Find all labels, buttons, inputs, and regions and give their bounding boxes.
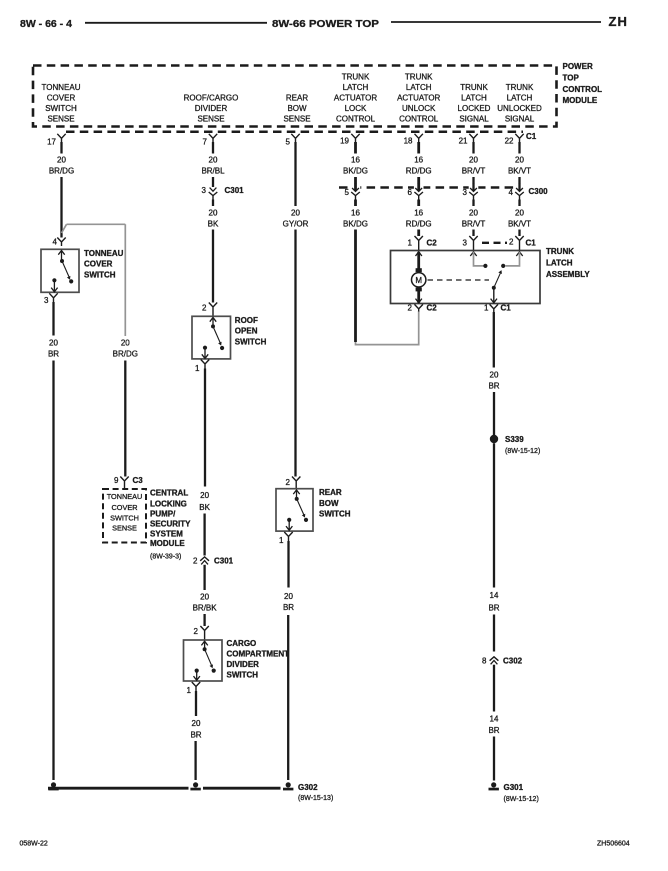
label 20 BR — [48, 339, 59, 359]
svg-text:20: 20 — [209, 156, 218, 165]
svg-text:BR/DG: BR/DG — [49, 167, 74, 176]
central locking pump security system module label — [150, 489, 191, 561]
svg-text:8W - 66 - 4: 8W - 66 - 4 — [20, 18, 72, 30]
svg-text:UNLOCKED: UNLOCKED — [497, 104, 542, 113]
svg-text:LOCKING: LOCKING — [150, 499, 187, 508]
wire 20 BR to splice — [493, 392, 495, 435]
svg-text:BR/VT: BR/VT — [462, 220, 486, 229]
tonneau cover switch box — [41, 249, 79, 292]
module pin label REAR BOW SENSE — [283, 94, 310, 124]
wire 20 BR to ground — [194, 741, 196, 780]
svg-text:TRUNK: TRUNK — [342, 73, 370, 82]
wire 20 BK to roof open switch — [212, 230, 214, 303]
rear bow switch box — [276, 489, 313, 531]
svg-text:SWITCH: SWITCH — [319, 509, 351, 518]
pin 3 — [44, 293, 58, 305]
svg-text:SIGNAL: SIGNAL — [459, 115, 489, 124]
svg-text:SWITCH: SWITCH — [235, 337, 267, 346]
svg-text:16: 16 — [414, 156, 423, 165]
svg-text:RD/DG: RD/DG — [406, 167, 432, 176]
pin 9 C3 — [114, 476, 143, 489]
svg-text:8: 8 — [482, 657, 487, 666]
trunk latch mechanical dashed link — [428, 279, 490, 281]
pin 2 C2 below trunk latch — [408, 304, 438, 313]
roof switch fixed contact — [203, 346, 207, 350]
trunk latch locked contact — [483, 264, 487, 268]
wire to C302 — [493, 615, 495, 652]
tonneau switch internal arrow up — [58, 251, 64, 262]
wire 20 BK/VT segment — [518, 142, 520, 154]
wire 16 BK/DG long run — [354, 230, 357, 343]
wire 20 BR/DG to central locking pump — [124, 361, 126, 477]
trunk latch switch lever — [494, 272, 501, 288]
tonneau switch pivot — [60, 259, 64, 263]
svg-text:4: 4 — [53, 238, 58, 247]
svg-text:COVER: COVER — [47, 94, 76, 103]
svg-text:TRUNK: TRUNK — [405, 73, 433, 82]
svg-text:20: 20 — [209, 209, 218, 218]
power top control module label — [563, 62, 603, 105]
trunk latch locked signal internal arrow up — [470, 252, 476, 256]
pin 1 C2 trunk latch — [408, 236, 438, 251]
pin 2 C1 trunk latch — [509, 236, 536, 251]
wire 14 BR lower — [493, 665, 495, 712]
wire 20 BR segment — [287, 541, 289, 588]
svg-text:(8W-39-3): (8W-39-3) — [150, 553, 181, 560]
wire 16 RD/DG to trunk latch — [417, 230, 420, 237]
svg-text:DIVIDER: DIVIDER — [195, 104, 228, 113]
wire 20 BR/VT second segment — [472, 200, 474, 207]
svg-text:DIVIDER: DIVIDER — [227, 660, 260, 669]
pin 17 — [47, 134, 66, 147]
svg-text:TONNEAU: TONNEAU — [107, 492, 143, 501]
cargo switch lever — [205, 649, 212, 666]
svg-text:G301: G301 — [504, 783, 524, 792]
svg-text:BR/VT: BR/VT — [462, 167, 486, 176]
wire 14 BR upper — [493, 443, 495, 587]
svg-text:20: 20 — [469, 209, 478, 218]
wire 16 RD/DG segment — [417, 142, 420, 154]
svg-text:SWITCH: SWITCH — [45, 104, 77, 113]
pin 3 C1 trunk latch — [463, 236, 478, 251]
trunk latch motor feed wire top — [417, 252, 420, 269]
wire 20 BK/VT to trunk latch — [518, 230, 520, 237]
svg-text:22: 22 — [505, 137, 514, 146]
svg-text:C300: C300 — [529, 187, 549, 196]
wire 20 GY/OR segment — [294, 142, 296, 206]
svg-text:BR/BK: BR/BK — [193, 604, 218, 613]
wire 20 BR/VT segment — [472, 142, 474, 154]
svg-text:BOW: BOW — [319, 499, 339, 508]
pin 19 — [340, 134, 360, 146]
svg-text:20: 20 — [49, 339, 58, 348]
cargo switch pivot — [203, 647, 207, 651]
module pin label TRUNK LATCH LOCKED SIGNAL — [458, 83, 491, 124]
pin 1 cargo switch — [187, 682, 201, 695]
svg-text:20: 20 — [57, 156, 66, 165]
label 16 RD/DG lower — [406, 209, 432, 229]
rear bow switch label — [319, 488, 351, 518]
connector 2 C301 — [193, 557, 234, 566]
svg-text:SWITCH: SWITCH — [110, 514, 139, 523]
roof switch lever — [213, 326, 220, 343]
wire 20 BR to ground — [52, 361, 54, 781]
svg-text:POWER: POWER — [563, 62, 593, 71]
pin 1 C1 below trunk latch — [484, 304, 511, 313]
cargo switch internal arrow up — [201, 641, 207, 649]
svg-text:BK: BK — [199, 503, 210, 512]
trunk latch assembly label — [546, 247, 590, 279]
svg-text:(8W-15-12): (8W-15-12) — [505, 448, 540, 455]
cargo compartment divider switch label — [227, 639, 290, 679]
svg-text:1: 1 — [408, 239, 413, 248]
label 20 BK/VT — [508, 156, 531, 176]
tonneau cover switch label — [84, 249, 124, 279]
svg-text:(8W-15-13): (8W-15-13) — [298, 795, 333, 802]
trunk latch unlocked contact — [501, 264, 505, 268]
svg-text:ROOF: ROOF — [235, 316, 258, 325]
pin 22 — [505, 134, 524, 146]
svg-text:SENSE: SENSE — [47, 115, 74, 124]
svg-text:5: 5 — [286, 138, 291, 147]
svg-text:ACTUATOR: ACTUATOR — [397, 94, 440, 103]
svg-text:058W-22: 058W-22 — [20, 841, 48, 848]
svg-text:LATCH: LATCH — [507, 94, 533, 103]
svg-text:BK/DG: BK/DG — [343, 167, 368, 176]
svg-text:SENSE: SENSE — [112, 523, 137, 532]
cargo compartment divider switch box — [184, 640, 223, 681]
wire to C301 pin 2 — [203, 514, 205, 556]
pin 4 — [53, 238, 66, 247]
svg-text:1: 1 — [195, 364, 200, 373]
svg-text:2: 2 — [509, 238, 514, 247]
label 16 BK/DG lower — [343, 209, 368, 229]
connector 3 C301 — [202, 186, 245, 200]
svg-text:2: 2 — [193, 557, 198, 566]
C300 pin 6 — [408, 183, 424, 199]
pin 5 — [286, 134, 300, 147]
ground symbol at tonneau switch wire — [48, 782, 58, 790]
pin 7 — [203, 134, 218, 147]
roof switch moving contact — [220, 346, 224, 350]
rear bow switch pivot — [295, 497, 299, 501]
wire 20 BK lower — [204, 369, 206, 487]
svg-text:3: 3 — [44, 296, 49, 305]
roof switch internal arrow up — [210, 318, 216, 327]
svg-text:BK/VT: BK/VT — [508, 220, 531, 229]
label 14 BR lower — [488, 715, 499, 736]
svg-text:20: 20 — [469, 156, 478, 165]
svg-text:CENTRAL: CENTRAL — [150, 489, 188, 498]
svg-text:2: 2 — [194, 627, 199, 636]
svg-text:1: 1 — [187, 686, 192, 695]
svg-text:14: 14 — [490, 591, 499, 600]
svg-text:BR: BR — [283, 603, 294, 612]
splice S339 — [490, 435, 498, 443]
svg-text:LOCK: LOCK — [345, 104, 367, 113]
svg-text:BR/BL: BR/BL — [201, 167, 225, 176]
svg-text:C3: C3 — [133, 476, 144, 485]
svg-text:BR/DG: BR/DG — [113, 350, 138, 359]
connector C1 dashed line at module bottom — [66, 131, 523, 134]
svg-text:PUMP/: PUMP/ — [150, 510, 176, 519]
svg-text:UNLOCK: UNLOCK — [402, 104, 436, 113]
svg-text:COVER: COVER — [112, 503, 138, 512]
svg-text:TONNEAU: TONNEAU — [84, 249, 124, 258]
svg-text:ZH506604: ZH506604 — [597, 841, 630, 848]
svg-text:ASSEMBLY: ASSEMBLY — [546, 270, 590, 279]
label 20 BK/VT lower — [508, 209, 531, 229]
svg-text:COMPARTMENT: COMPARTMENT — [227, 650, 290, 659]
svg-text:20: 20 — [284, 592, 293, 601]
svg-text:LATCH: LATCH — [406, 83, 432, 92]
label 14 BR — [488, 591, 499, 613]
svg-text:21: 21 — [459, 137, 468, 146]
wire to tonneau cover switch — [60, 177, 62, 238]
pin 2 cargo switch — [194, 626, 209, 640]
svg-text:20: 20 — [200, 491, 209, 500]
svg-text:20: 20 — [192, 719, 201, 728]
svg-text:OPEN: OPEN — [235, 327, 258, 336]
svg-text:CONTROL: CONTROL — [563, 85, 603, 94]
svg-text:REAR: REAR — [319, 488, 342, 497]
wire above C300 pin 6 — [417, 177, 420, 187]
wire to rear bow switch — [294, 230, 296, 477]
svg-text:C2: C2 — [427, 239, 438, 248]
svg-text:BR: BR — [48, 350, 59, 359]
C300 pin 5 — [345, 183, 361, 199]
svg-text:ROOF/CARGO: ROOF/CARGO — [184, 94, 239, 103]
trunk latch motor feed arrow up — [416, 252, 422, 256]
svg-text:S339: S339 — [505, 435, 524, 444]
ground G301 — [489, 782, 539, 802]
pin 2 roof open switch — [202, 303, 217, 317]
central locking pump/security system module dashed box — [103, 489, 146, 543]
label 20 BR — [488, 371, 499, 391]
svg-text:3: 3 — [463, 188, 468, 197]
svg-text:SENSE: SENSE — [197, 115, 224, 124]
svg-text:BR: BR — [488, 604, 499, 613]
wire gray elbow to trunk latch pin 2 C2 — [356, 311, 419, 345]
module pin label TRUNK LATCH ACTUATOR UNLOCK CONTROL — [397, 73, 440, 124]
wire 16 BK/DG segment — [354, 142, 357, 154]
wire branch horizontal 20 BR/DG — [67, 223, 126, 225]
svg-text:16: 16 — [351, 156, 360, 165]
wire 16 BK/DG second segment — [354, 200, 357, 207]
svg-text:TRUNK: TRUNK — [546, 247, 574, 256]
label 20 BR/DG — [49, 156, 74, 176]
svg-text:TRUNK: TRUNK — [460, 83, 488, 92]
cargo switch fixed contact — [195, 669, 199, 673]
svg-text:MODULE: MODULE — [563, 96, 598, 105]
cargo switch moving contact — [212, 669, 216, 673]
label 16 BK/DG — [343, 156, 368, 176]
svg-text:C1: C1 — [526, 132, 537, 141]
svg-text:M: M — [415, 276, 422, 285]
trunk latch unlocked signal internal wire — [506, 252, 520, 266]
trunk latch switch pivot — [492, 286, 496, 290]
svg-text:14: 14 — [490, 715, 499, 724]
trunk latch assembly box — [391, 251, 541, 304]
wire 16 RD/DG second segment — [417, 200, 420, 207]
svg-text:C1: C1 — [501, 304, 512, 313]
pin 18 — [404, 134, 423, 146]
wire 20 BR upper segment — [195, 691, 197, 716]
svg-text:(8W-15-12): (8W-15-12) — [504, 796, 539, 803]
wire 20 BR/DG upper segment — [60, 142, 62, 154]
ground bus G302 — [48, 787, 189, 790]
svg-text:SWITCH: SWITCH — [84, 270, 116, 279]
connector 8 C302 — [482, 657, 523, 666]
svg-text:C302: C302 — [503, 657, 523, 666]
wire branch vertical gray 20 BR/DG — [124, 224, 126, 336]
wire above C300 pin 4 — [518, 177, 520, 187]
svg-text:BOW: BOW — [287, 104, 307, 113]
roof open switch label — [235, 316, 267, 346]
svg-text:7: 7 — [203, 138, 208, 147]
module pin label TONNEAU COVER SWITCH SENSE — [42, 83, 81, 124]
trunk latch motor arrow down — [416, 299, 422, 303]
tonneau switch lever — [62, 261, 69, 278]
svg-text:16: 16 — [414, 209, 423, 218]
trunk latch switch common wire — [493, 288, 495, 303]
label 20 BR/VT — [462, 156, 486, 176]
C300 pin 4 — [509, 183, 525, 199]
svg-text:C301: C301 — [214, 557, 234, 566]
svg-text:20: 20 — [121, 339, 130, 348]
svg-text:BK/DG: BK/DG — [343, 220, 368, 229]
wire 20 BK upper segment — [212, 200, 214, 207]
svg-text:G302: G302 — [298, 783, 318, 792]
svg-text:C1: C1 — [526, 239, 537, 248]
connector C300 dashed line — [339, 186, 524, 189]
svg-text:RD/DG: RD/DG — [406, 220, 432, 229]
label 20 BR/BL — [201, 156, 225, 176]
tonneau switch fixed contact — [52, 278, 56, 282]
tonneau switch moving contact — [69, 279, 73, 283]
label 20 BR — [190, 719, 201, 740]
rear bow switch fixed contact — [287, 518, 291, 522]
svg-text:6: 6 — [408, 188, 413, 197]
wire 20 BR to ground — [287, 615, 289, 780]
svg-text:19: 19 — [340, 137, 349, 146]
wire above C301 — [212, 177, 214, 187]
ground symbol at cargo switch wire — [190, 782, 200, 790]
svg-text:LATCH: LATCH — [546, 259, 573, 268]
ground symbol G302 at rear bow wire — [283, 782, 333, 802]
module pin label TRUNK LATCH ACTUATOR LOCK CONTROL — [334, 73, 377, 124]
roof switch internal arrow down — [202, 348, 208, 359]
svg-text:C2: C2 — [427, 304, 438, 313]
svg-text:CARGO: CARGO — [227, 639, 257, 648]
central locking box inner label TONNEAU COVER SWITCH SENSE — [107, 492, 143, 532]
svg-text:BR: BR — [488, 382, 499, 391]
svg-text:20: 20 — [515, 156, 524, 165]
svg-text:LATCH: LATCH — [343, 83, 369, 92]
label 20 BR/VT lower — [462, 209, 486, 229]
svg-text:9: 9 — [114, 476, 119, 485]
module pin label TRUNK LATCH UNLOCKED SIGNAL — [497, 83, 542, 124]
svg-text:20: 20 — [291, 209, 300, 218]
wire to cargo compartment divider switch — [203, 614, 205, 626]
wire 20 BR from trunk latch — [493, 312, 495, 368]
svg-text:SENSE: SENSE — [283, 115, 310, 124]
svg-text:MODULE: MODULE — [150, 539, 185, 548]
svg-text:ACTUATOR: ACTUATOR — [334, 94, 377, 103]
svg-text:BK: BK — [208, 220, 219, 229]
motor M1 circle — [412, 273, 426, 287]
svg-text:CONTROL: CONTROL — [399, 115, 439, 124]
trunk latch switch arrow down — [491, 299, 497, 303]
svg-text:CONTROL: CONTROL — [336, 115, 376, 124]
label 20 BK — [208, 209, 219, 229]
label 16 RD/DG — [406, 156, 432, 176]
svg-text:TRUNK: TRUNK — [506, 83, 534, 92]
header rule right — [391, 21, 601, 23]
motor brush top — [416, 268, 422, 272]
svg-text:8W-66 POWER TOP: 8W-66 POWER TOP — [272, 18, 379, 30]
header rule left — [85, 22, 267, 24]
tonneau switch internal arrow down — [51, 280, 57, 292]
svg-text:2: 2 — [286, 478, 291, 487]
svg-text:20: 20 — [200, 593, 209, 602]
svg-text:BK/VT: BK/VT — [508, 167, 531, 176]
pin 21 — [459, 134, 478, 146]
motor brush bottom — [416, 287, 422, 291]
wire 20 BR upper — [52, 302, 54, 336]
power top control module dashed box — [33, 66, 557, 127]
wire 20 BR/BK segment — [203, 565, 205, 590]
svg-text:2: 2 — [202, 304, 207, 313]
label 20 BR/BK — [193, 593, 218, 613]
svg-text:18: 18 — [404, 137, 413, 146]
svg-text:GY/OR: GY/OR — [283, 220, 309, 229]
svg-text:SYSTEM: SYSTEM — [150, 529, 183, 538]
svg-text:3: 3 — [202, 186, 207, 195]
svg-text:5: 5 — [345, 188, 350, 197]
connector C1 dashed segment at trunk latch — [482, 242, 507, 244]
module pin label ROOF/CARGO DIVIDER SENSE — [184, 94, 239, 124]
svg-text:2: 2 — [408, 304, 413, 313]
svg-text:1: 1 — [279, 536, 284, 545]
rear bow switch lever — [297, 499, 304, 515]
svg-text:SWITCH: SWITCH — [227, 670, 259, 679]
trunk latch locked signal internal wire — [474, 252, 484, 266]
svg-text:C301: C301 — [225, 186, 245, 195]
pin 2 rear bow switch — [286, 477, 301, 489]
C300 pin 3 — [463, 183, 479, 199]
trunk latch unlocked signal internal arrow up — [516, 252, 522, 256]
label 20 BR/DG lower — [113, 339, 138, 359]
wire 14 BR to ground G301 — [493, 737, 495, 781]
rear bow switch internal arrow down — [286, 520, 292, 530]
svg-text:4: 4 — [509, 188, 514, 197]
svg-text:3: 3 — [463, 239, 468, 248]
wire above C300 pin 5 — [354, 177, 357, 187]
wire above C300 pin 3 — [472, 177, 474, 187]
svg-text:SECURITY: SECURITY — [150, 520, 191, 529]
roof switch pivot — [211, 324, 215, 328]
rear bow switch moving contact — [304, 518, 308, 522]
label 20 GY/OR — [283, 209, 309, 229]
svg-text:TONNEAU: TONNEAU — [42, 83, 81, 92]
svg-text:TOP: TOP — [563, 74, 580, 83]
svg-text:BR: BR — [488, 726, 499, 735]
label 20 BK lower — [199, 491, 210, 512]
cargo switch internal arrow down — [194, 671, 200, 681]
svg-text:20: 20 — [515, 209, 524, 218]
trunk latch motor feed wire bottom — [417, 291, 420, 303]
